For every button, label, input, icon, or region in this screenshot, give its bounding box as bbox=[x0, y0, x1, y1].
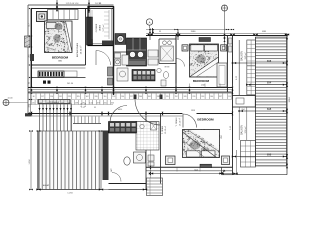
svg-text:694: 694 bbox=[267, 81, 272, 85]
svg-text:265: 265 bbox=[77, 96, 80, 98]
svg-text:BEDROOM: BEDROOM bbox=[52, 55, 69, 59]
svg-text:95: 95 bbox=[159, 31, 162, 33]
svg-text:245 90: 245 90 bbox=[67, 83, 74, 85]
svg-text:T. ODASI: T. ODASI bbox=[161, 125, 164, 134]
svg-text:190: 190 bbox=[121, 96, 124, 98]
svg-text:90: 90 bbox=[28, 81, 30, 84]
svg-text:16.10 m²: 16.10 m² bbox=[179, 118, 182, 126]
svg-text:1.29 2.06 1.54: 1.29 2.06 1.54 bbox=[66, 3, 80, 5]
svg-text:KATKA ODASI: KATKA ODASI bbox=[76, 42, 79, 57]
svg-text:132: 132 bbox=[61, 102, 64, 104]
svg-text:117: 117 bbox=[41, 96, 44, 98]
svg-text:80: 80 bbox=[33, 96, 35, 98]
svg-text:144: 144 bbox=[89, 102, 92, 104]
svg-text:189: 189 bbox=[184, 96, 187, 98]
svg-text:3.43: 3.43 bbox=[230, 125, 232, 130]
svg-text:226: 226 bbox=[192, 96, 195, 98]
svg-text:417: 417 bbox=[28, 22, 30, 26]
svg-text:858: 858 bbox=[221, 134, 223, 138]
svg-text:338: 338 bbox=[157, 96, 160, 98]
svg-text:263: 263 bbox=[201, 96, 204, 98]
svg-text:191: 191 bbox=[59, 96, 62, 98]
svg-text:10.33 m²: 10.33 m² bbox=[80, 45, 83, 54]
svg-text:154: 154 bbox=[50, 96, 53, 98]
svg-text:±0.00: ±0.00 bbox=[8, 98, 14, 100]
svg-text:Y. ODASI: Y. ODASI bbox=[175, 117, 178, 126]
svg-text:2.62 95: 2.62 95 bbox=[95, 3, 101, 5]
svg-text:WC: WC bbox=[111, 168, 113, 172]
svg-text:197: 197 bbox=[97, 102, 100, 104]
svg-text:AHSAP: AHSAP bbox=[43, 184, 50, 187]
svg-text:173: 173 bbox=[39, 102, 42, 104]
svg-text:386: 386 bbox=[58, 61, 62, 63]
svg-text:BEDROOM: BEDROOM bbox=[197, 118, 214, 122]
svg-text:228: 228 bbox=[68, 96, 71, 98]
svg-text:10.10 m²: 10.10 m² bbox=[164, 126, 167, 134]
svg-text:3.25 m²: 3.25 m² bbox=[244, 52, 247, 59]
svg-text:185: 185 bbox=[68, 102, 71, 104]
svg-text:BALKON: BALKON bbox=[241, 125, 244, 135]
svg-text:1.294: 1.294 bbox=[29, 159, 31, 165]
svg-text:95: 95 bbox=[94, 107, 96, 109]
svg-text:698: 698 bbox=[267, 153, 272, 157]
svg-text:337: 337 bbox=[219, 96, 222, 98]
svg-text:A: A bbox=[149, 20, 151, 24]
svg-text:ODASI: ODASI bbox=[99, 24, 102, 31]
svg-text:302: 302 bbox=[86, 96, 89, 98]
svg-text:1294: 1294 bbox=[289, 97, 291, 103]
svg-text:226: 226 bbox=[46, 102, 49, 104]
svg-text:264: 264 bbox=[139, 96, 142, 98]
svg-text:263: 263 bbox=[191, 110, 195, 112]
svg-text:339: 339 bbox=[95, 96, 98, 98]
svg-text:250: 250 bbox=[104, 102, 107, 104]
svg-text:306: 306 bbox=[28, 103, 30, 107]
svg-text:238: 238 bbox=[75, 102, 78, 104]
svg-text:HOL: HOL bbox=[118, 109, 123, 111]
svg-text:698: 698 bbox=[267, 59, 272, 63]
svg-text:153: 153 bbox=[112, 96, 115, 98]
svg-text:89 89: 89 89 bbox=[165, 67, 170, 69]
svg-text:GIYINME: GIYINME bbox=[96, 23, 98, 32]
svg-text:303: 303 bbox=[111, 102, 114, 104]
svg-text:152: 152 bbox=[175, 96, 178, 98]
svg-text:1586: 1586 bbox=[191, 31, 197, 33]
svg-text:698: 698 bbox=[267, 107, 272, 111]
svg-text:3.50 m²: 3.50 m² bbox=[244, 126, 247, 133]
svg-text:301: 301 bbox=[148, 96, 151, 98]
svg-text:1.294: 1.294 bbox=[67, 193, 73, 195]
svg-text:120: 120 bbox=[32, 102, 35, 104]
svg-text:227: 227 bbox=[130, 96, 133, 98]
svg-text:115: 115 bbox=[166, 96, 169, 98]
svg-text:300: 300 bbox=[210, 96, 213, 98]
svg-text:279: 279 bbox=[53, 102, 56, 104]
svg-text:9.05: 9.05 bbox=[236, 75, 238, 80]
svg-text:BALKON: BALKON bbox=[241, 51, 244, 61]
svg-text:BEDROOM: BEDROOM bbox=[193, 79, 210, 83]
svg-text:114: 114 bbox=[228, 96, 231, 98]
svg-text:698: 698 bbox=[262, 31, 266, 33]
svg-text:116: 116 bbox=[103, 96, 106, 98]
